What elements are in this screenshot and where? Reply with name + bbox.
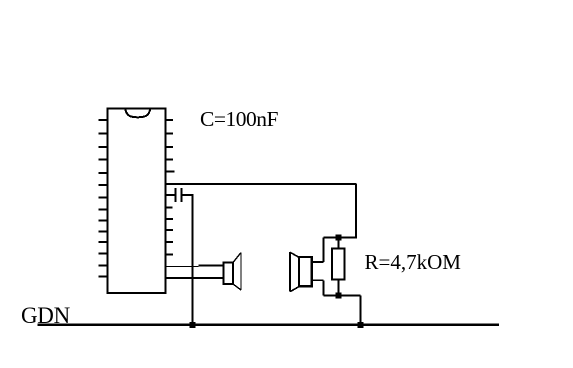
speaker LS1 driver box [224, 263, 234, 285]
wire W9: speaker LS2 bottom terminal horizontal [312, 279, 323, 281]
wire W4: IC to speaker LS1 bottom terminal [166, 277, 224, 279]
ground junction dot (wire W12) [358, 322, 364, 328]
wire W6: node A horizontal [324, 236, 357, 238]
speaker LS2 driver box [299, 257, 312, 287]
wire W3: IC to speaker LS1 top terminal [166, 266, 224, 267]
wire W8: speaker LS2 top terminal horizontal [312, 261, 323, 263]
wire W11: node B horizontal [324, 294, 361, 296]
speaker LS2 cone [290, 252, 299, 292]
IC U1 left pins (14) [99, 120, 108, 277]
wire W1: IC pin to top-right vertical [166, 183, 357, 185]
ground rail GDN [38, 324, 500, 326]
svg-text:GDN: GDN [21, 303, 71, 328]
svg-text:R=4,7kOM: R=4,7kOM [365, 250, 462, 274]
resistor R1 body [332, 249, 345, 280]
wire W12: node B down to ground rail [360, 295, 362, 325]
capacitor C1 left stub wire [166, 194, 176, 196]
speaker LS1 cone [233, 253, 241, 291]
capacitor C1 plates [176, 188, 182, 202]
wire W7: speaker LS2 top terminal vertical [323, 238, 325, 263]
label GDN [21, 303, 71, 328]
label R=4,7kOM [365, 250, 462, 274]
capacitor C1 right stub wire [182, 194, 193, 196]
IC U1 pin-1 notch [125, 109, 150, 117]
svg-text:C=100nF: C=100nF [200, 107, 278, 131]
IC U1 right pins (unconnected stubs) [166, 120, 175, 254]
wire W2: capacitor to ground rail (vertical) [192, 194, 194, 326]
resistor R1 top lead [338, 238, 340, 249]
junction node B dot [336, 292, 342, 298]
resistor R1 bottom lead [338, 280, 340, 296]
label C=100nF [200, 107, 278, 131]
ground junction dot (wire W2) [190, 322, 196, 328]
wire W5: top-right vertical (W1 down to resistor node A) [355, 184, 357, 239]
junction node A dot [336, 235, 342, 241]
wire W10: speaker LS2 bottom terminal vertical down [323, 280, 325, 295]
IC U1 body [108, 109, 166, 294]
